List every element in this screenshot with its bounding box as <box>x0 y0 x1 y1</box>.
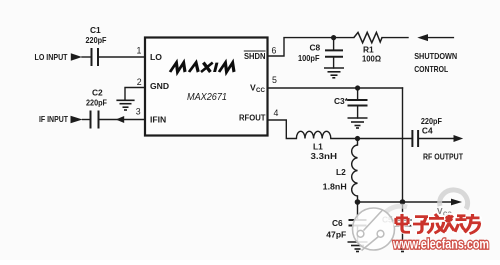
svg-text:1: 1 <box>137 46 142 56</box>
svg-text:2: 2 <box>137 77 142 87</box>
svg-text:SHUTDOWN: SHUTDOWN <box>414 51 457 61</box>
svg-text:CONTROL: CONTROL <box>414 64 448 74</box>
svg-text:GND: GND <box>150 81 169 91</box>
svg-text:C6: C6 <box>332 218 343 228</box>
svg-text:220pF: 220pF <box>86 98 107 108</box>
svg-text:220pF: 220pF <box>86 35 107 45</box>
svg-text:CC: CC <box>256 87 265 94</box>
svg-text:1.8nH: 1.8nH <box>323 182 347 192</box>
svg-text:MAX2671: MAX2671 <box>187 91 227 103</box>
svg-text:100Ω: 100Ω <box>362 54 381 64</box>
svg-text:3: 3 <box>136 107 141 117</box>
svg-text:SHDN: SHDN <box>244 51 266 61</box>
svg-text:47pF: 47pF <box>326 230 346 240</box>
svg-text:C8: C8 <box>310 43 321 53</box>
svg-text:RFOUT: RFOUT <box>239 112 266 122</box>
svg-text:C1: C1 <box>90 25 101 35</box>
svg-text:3.3nH: 3.3nH <box>311 151 338 161</box>
svg-text:C3*: C3* <box>334 96 349 106</box>
svg-text:IFIN: IFIN <box>150 115 166 125</box>
svg-text:L2: L2 <box>336 167 346 177</box>
svg-text:220pF: 220pF <box>421 116 442 126</box>
svg-text:www.elecfans.com: www.elecfans.com <box>392 237 489 252</box>
svg-text:LO: LO <box>150 52 162 62</box>
svg-text:LO INPUT: LO INPUT <box>35 52 69 62</box>
svg-text:100pF: 100pF <box>298 53 320 63</box>
svg-text:C2: C2 <box>92 88 103 98</box>
svg-text:4: 4 <box>274 108 279 118</box>
svg-text:RF OUTPUT: RF OUTPUT <box>423 152 464 162</box>
svg-text:IF INPUT: IF INPUT <box>39 114 69 124</box>
svg-text:C4: C4 <box>422 125 433 135</box>
svg-text:5: 5 <box>272 75 277 85</box>
svg-text:6: 6 <box>272 46 277 56</box>
